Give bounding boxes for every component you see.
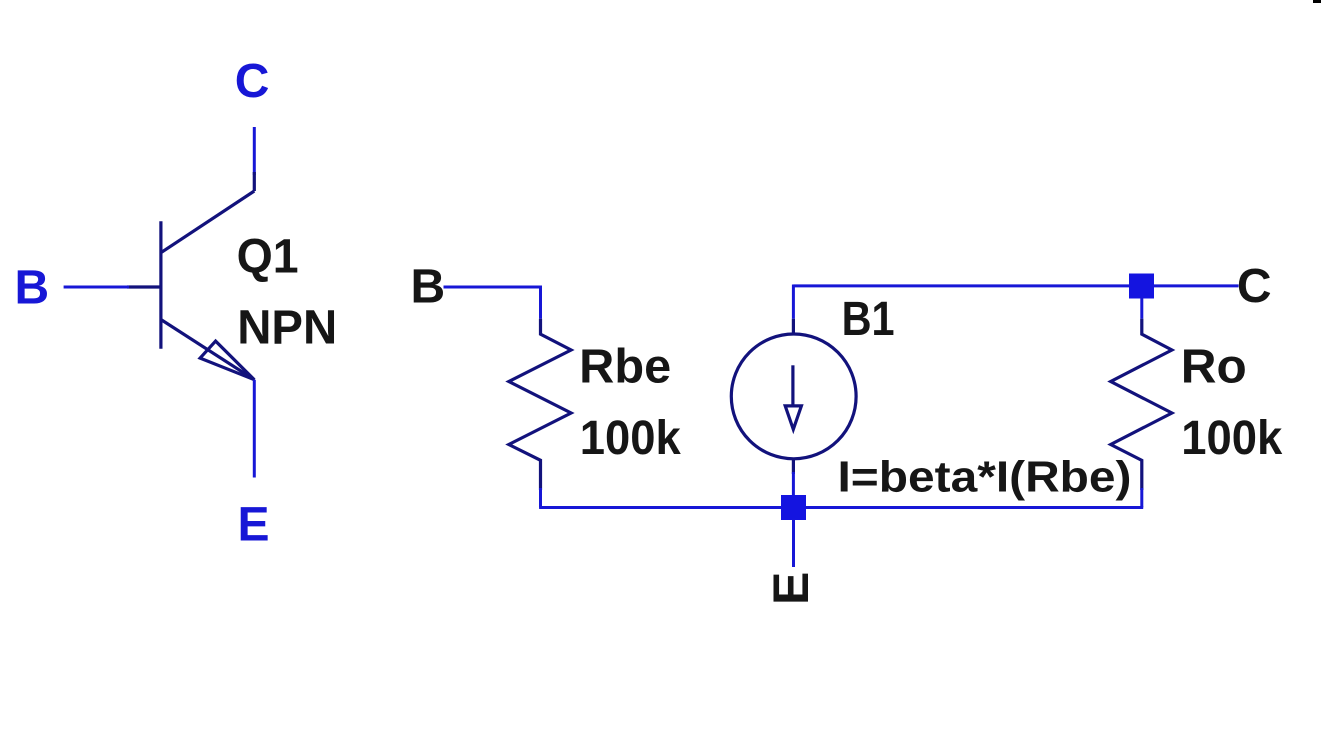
- svg-text:NPN: NPN: [237, 301, 337, 354]
- resistor Rbe: [509, 319, 571, 490]
- wire emitter lead: [253, 380, 256, 478]
- wire collector lead: [253, 127, 256, 175]
- svg-text:B: B: [411, 261, 446, 314]
- wire collector node to Ro: [1140, 297, 1143, 319]
- wire B to Rbe: [444, 287, 541, 319]
- transistor Q1: [127, 172, 254, 380]
- svg-text:C: C: [235, 55, 270, 108]
- wire top rail to B1: [792, 285, 795, 319]
- corner artifact mark: [1313, 0, 1321, 3]
- node junction square (emitter net): [781, 495, 806, 520]
- svg-text:100k: 100k: [580, 412, 681, 465]
- wire Ro bottom to rail: [1140, 488, 1143, 508]
- wire top rail: [793, 284, 1238, 287]
- svg-text:B: B: [15, 261, 50, 314]
- svg-text:E: E: [238, 498, 270, 551]
- current source B1: [731, 319, 856, 474]
- wire bottom rail: [539, 506, 1143, 509]
- wire base lead: [64, 286, 129, 289]
- svg-text:B1: B1: [842, 293, 895, 346]
- svg-text:C: C: [1237, 260, 1272, 313]
- svg-text:Rbe: Rbe: [579, 341, 671, 394]
- svg-text:I=beta*I(Rbe): I=beta*I(Rbe): [838, 452, 1132, 501]
- svg-text:E: E: [763, 572, 819, 605]
- wire B1 bottom to rail: [792, 472, 795, 508]
- wire Rbe bottom to rail: [539, 488, 542, 508]
- wire to E net label: [792, 520, 795, 568]
- svg-text:100k: 100k: [1181, 412, 1282, 465]
- svg-text:Ro: Ro: [1181, 341, 1247, 394]
- node junction square (collector net): [1129, 274, 1154, 299]
- svg-text:Q1: Q1: [237, 231, 299, 284]
- resistor Ro: [1111, 319, 1172, 490]
